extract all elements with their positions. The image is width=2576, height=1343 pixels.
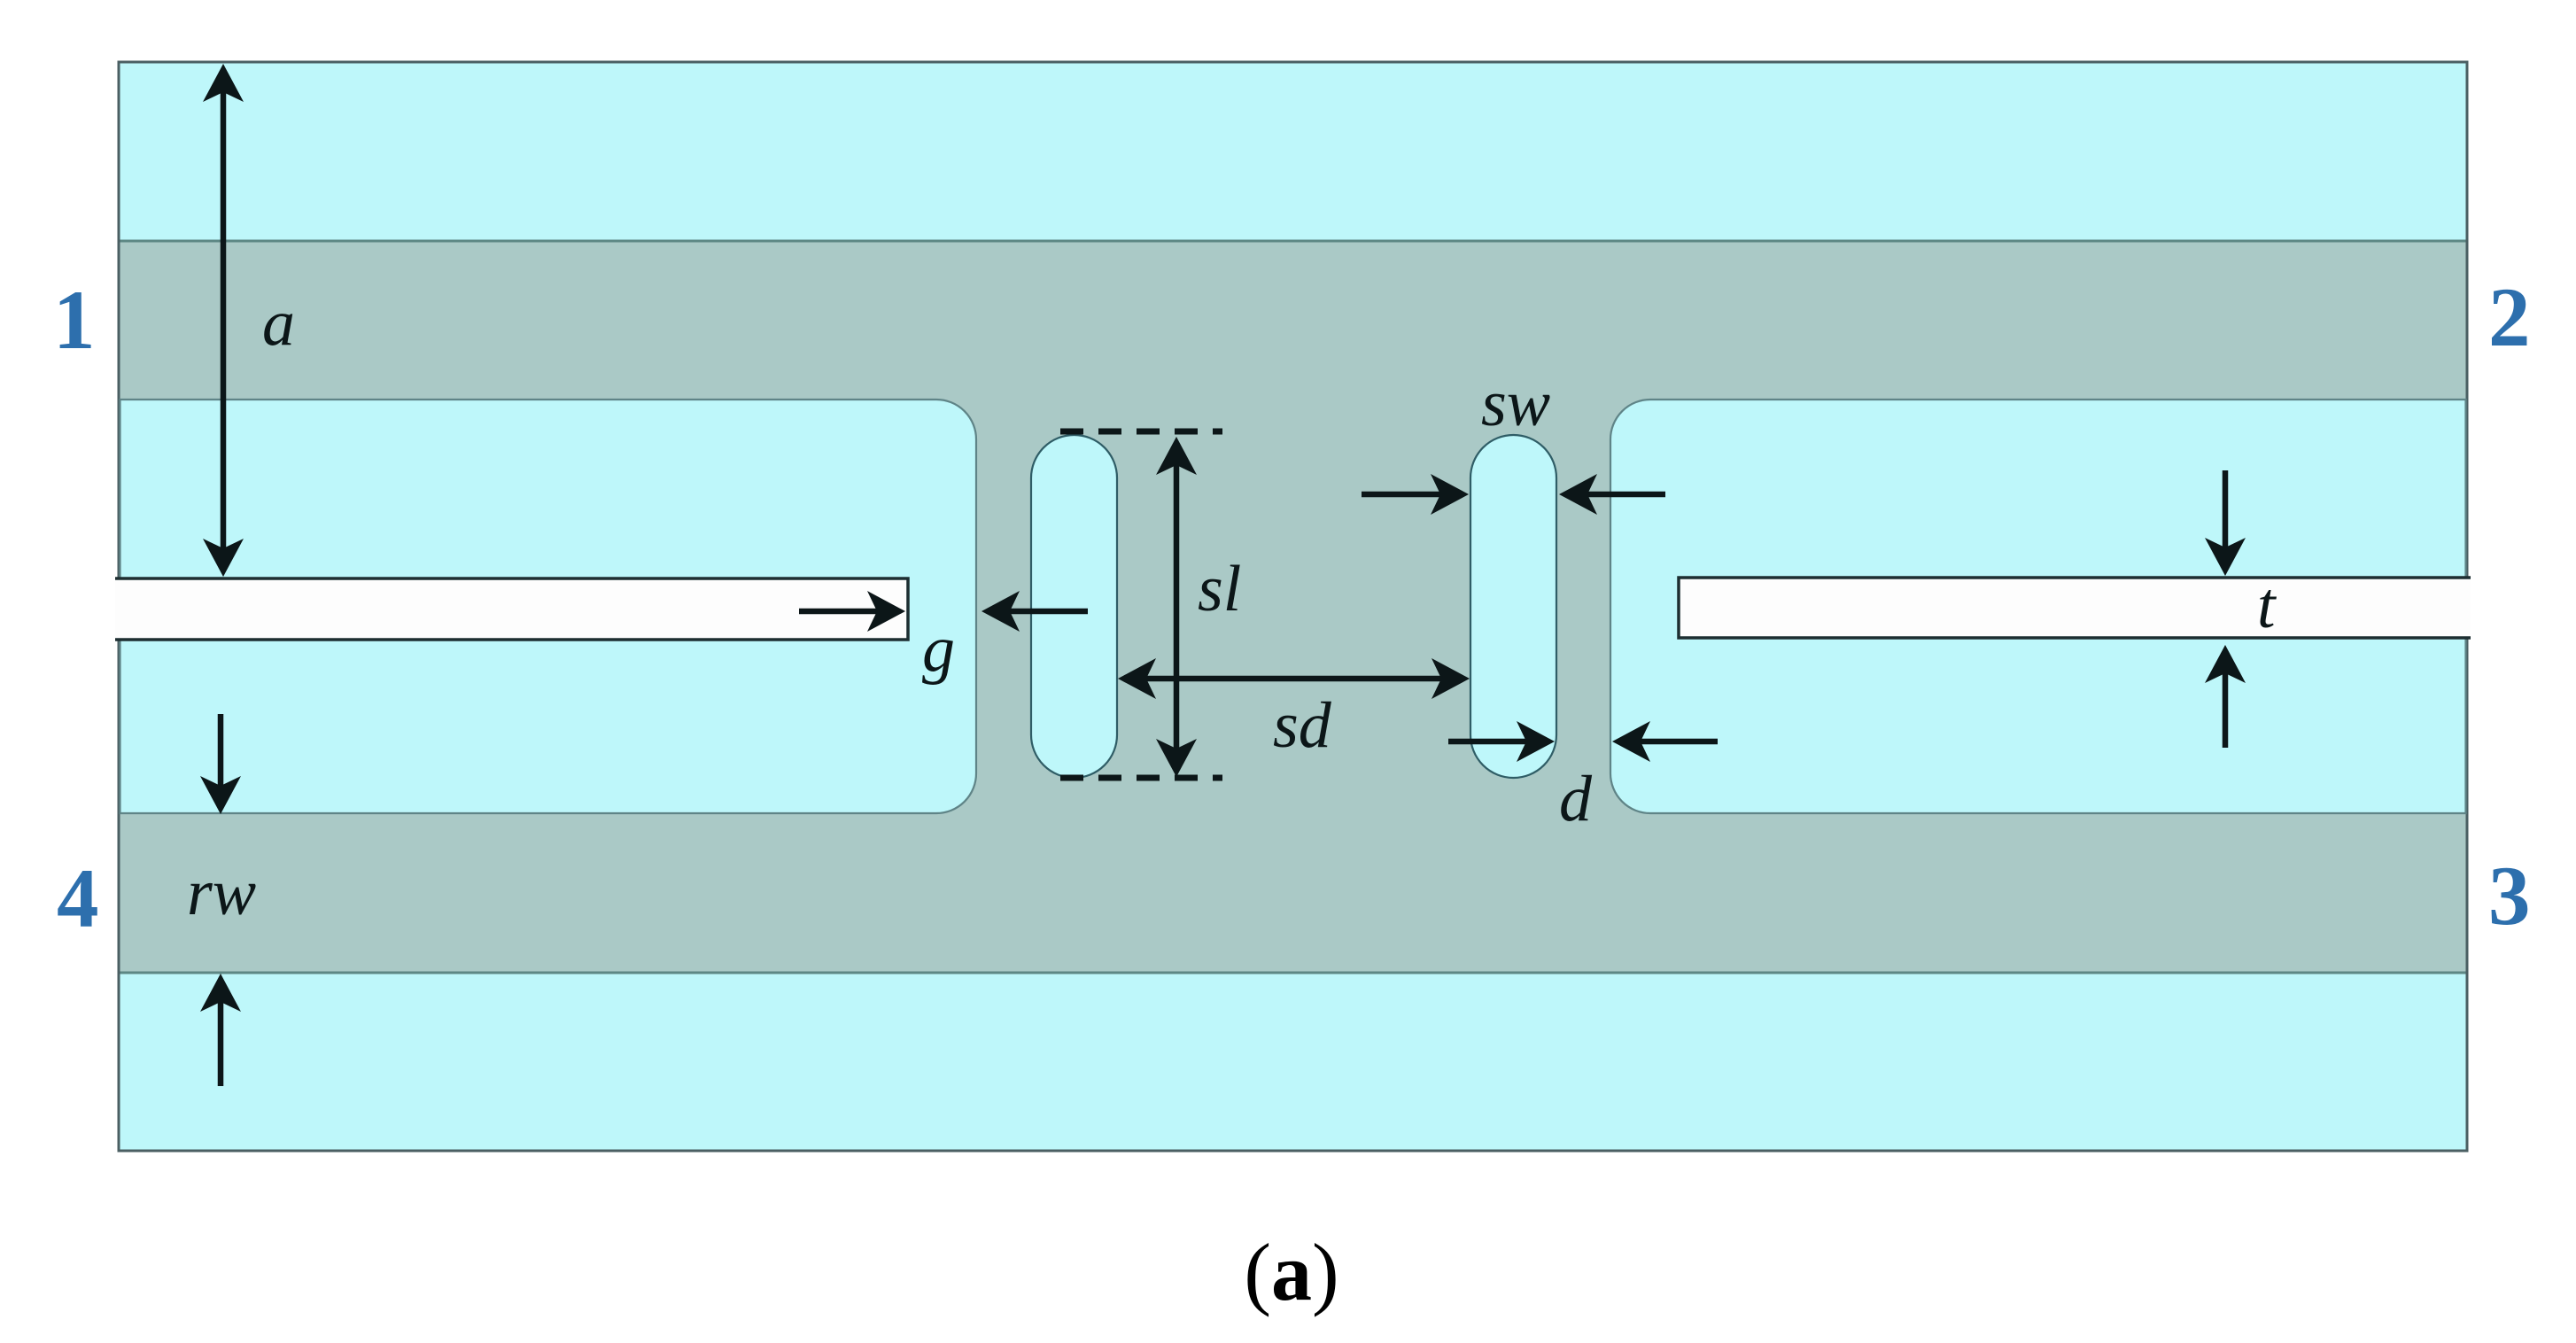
dimension sl double arrow — [1174, 449, 1180, 765]
dimension sw left arrow — [1571, 492, 1665, 498]
dimension sw right arrow — [1362, 492, 1456, 498]
svg-text:sd: sd — [1273, 689, 1332, 762]
right cyan block — [1610, 400, 2466, 813]
right white slot — [1679, 578, 2471, 638]
outer substrate rectangle — [119, 62, 2467, 1151]
svg-text:1: 1 — [53, 273, 96, 367]
dimension d left arrow — [1625, 739, 1718, 745]
svg-text:4: 4 — [57, 851, 99, 945]
top band upper boundary line — [120, 240, 2466, 243]
top dashed line — [1060, 429, 1222, 435]
svg-text:2: 2 — [2488, 270, 2531, 364]
right stadium slot — [1470, 435, 1556, 778]
svg-text:rw: rw — [187, 857, 256, 929]
dimension g left arrow — [994, 609, 1088, 615]
svg-text:d: d — [1559, 763, 1593, 835]
teal waveguide strip (both bands + middle channel) — [120, 241, 2466, 973]
svg-text:g: g — [922, 613, 955, 686]
dimension t up arrow — [2223, 657, 2229, 748]
dimension a double arrow — [221, 76, 227, 564]
left white slot — [115, 578, 908, 640]
bottom dashed line — [1060, 775, 1222, 781]
dimension rw down arrow — [218, 714, 224, 802]
svg-text:sl: sl — [1198, 553, 1241, 625]
dimension g right arrow (inside slot) — [799, 609, 893, 615]
svg-text:sw: sw — [1481, 368, 1550, 440]
svg-text:t: t — [2257, 570, 2277, 642]
svg-text:(a): (a) — [1244, 1227, 1338, 1317]
dimension d right arrow — [1448, 739, 1542, 745]
dimension rw up arrow — [218, 986, 224, 1086]
svg-text:a: a — [262, 287, 295, 360]
left cyan block — [120, 400, 977, 813]
left stadium slot — [1031, 435, 1117, 778]
svg-text:3: 3 — [2488, 849, 2531, 943]
dimension sd double arrow — [1130, 676, 1457, 682]
bottom band lower boundary line — [120, 972, 2466, 974]
dimension t down arrow — [2223, 470, 2229, 563]
